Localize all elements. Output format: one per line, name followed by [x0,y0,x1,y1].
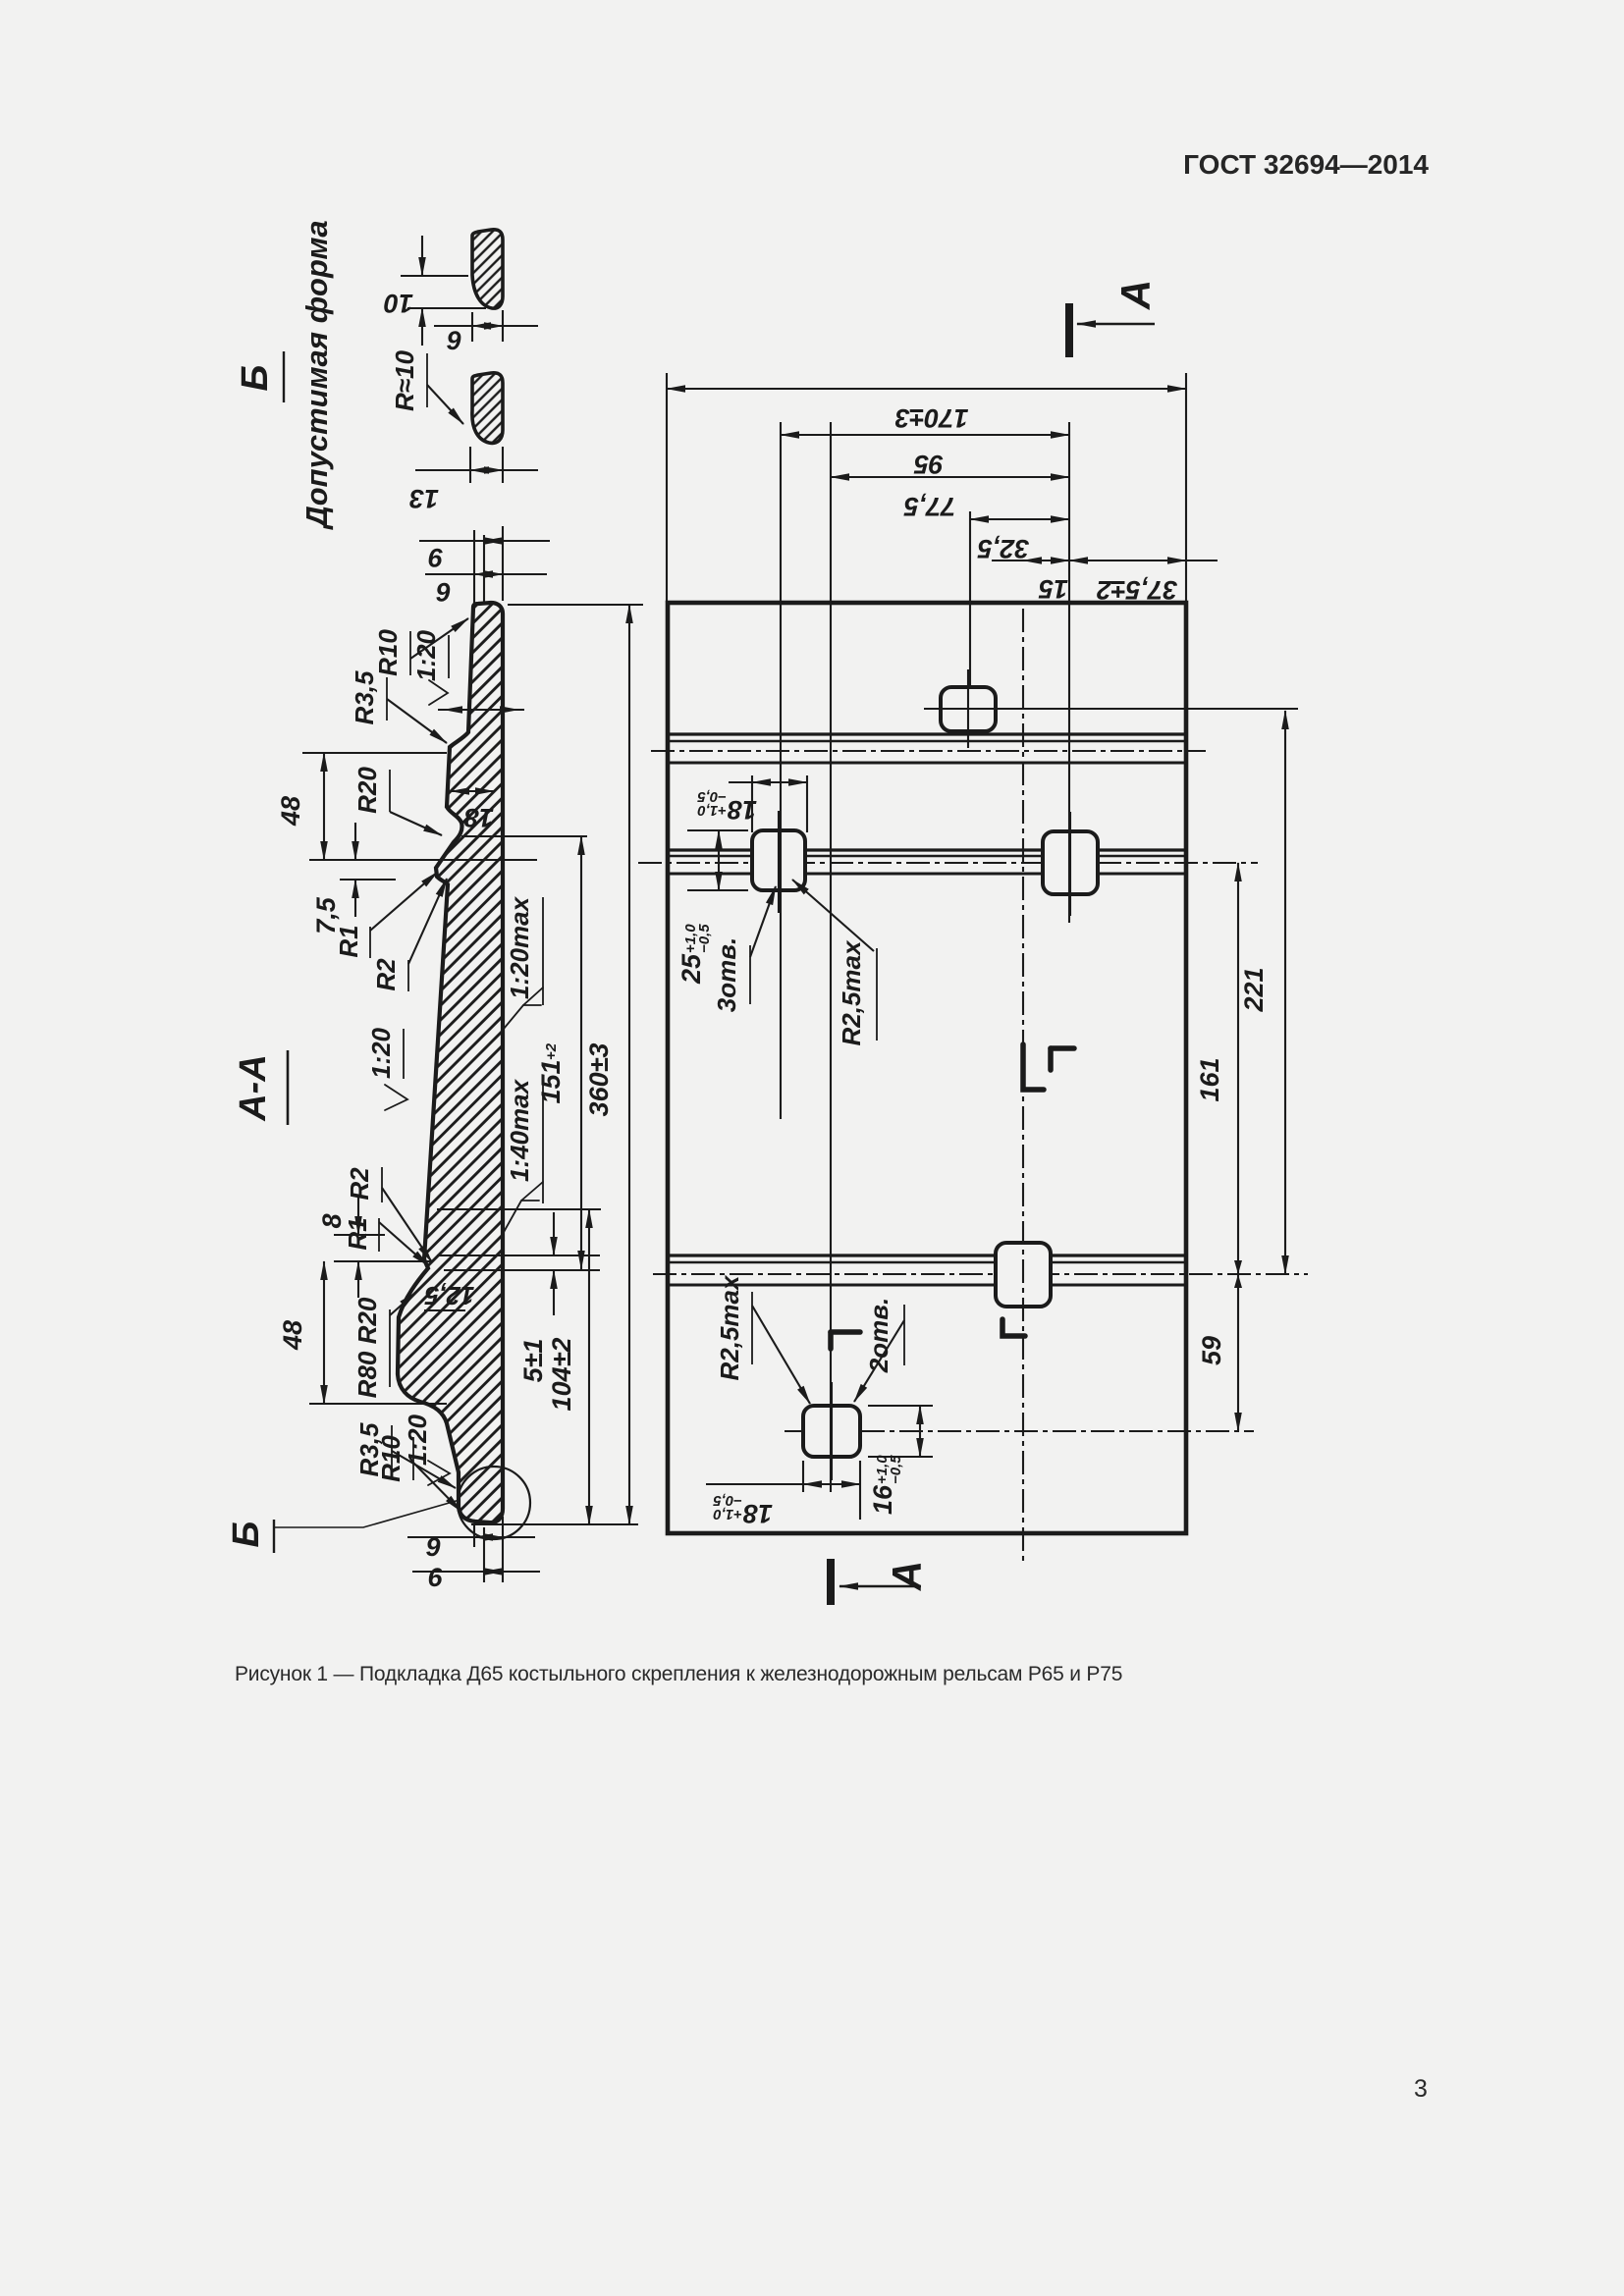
hole H1 top [941,687,996,731]
dimension 25 H2 [718,830,720,890]
rib band B line [668,848,752,851]
extension line x1089 [1068,422,1070,923]
reference line 12,5 [424,1309,465,1311]
extension H2 left [751,775,753,832]
dimension 18 H5 [803,1483,860,1485]
svg-text:Рисунок 1 — Подкладка Д65 кост: Рисунок 1 — Подкладка Д65 костыльного ск… [235,1663,1122,1685]
extension bottom 9 [473,1523,475,1547]
svg-text:9: 9 [425,1532,440,1562]
hole H3 middle right [1043,831,1098,894]
svg-text:6: 6 [436,577,452,607]
hole H3 vertical center line [1069,812,1071,916]
svg-text:9: 9 [428,543,443,572]
svg-text:37,5±2: 37,5±2 [1097,575,1177,605]
dimension 15 tail [992,560,1023,561]
svg-text:−0,5: −0,5 [713,1492,742,1509]
corner mark near hole H5 [831,1329,860,1335]
dimension 9 bottom [407,1536,535,1538]
svg-text:3: 3 [1414,2075,1428,2103]
hole H5 bottom [803,1406,860,1457]
extension right edge [1185,373,1187,603]
svg-text:170±3: 170±3 [895,403,969,433]
dimension text 16 +1,0 -0,5 H5 [868,1455,904,1515]
extension blob2 left [469,447,471,483]
rib band A line 1 [668,732,1186,735]
dimension text 25 +1,0 -0,5 H2 [677,924,713,985]
svg-text:Допустимая форма: Допустимая форма [299,220,334,530]
dimension 9 blob1 [434,325,538,327]
dimension 32,5 [970,518,1069,520]
rib band C line [668,1254,996,1256]
svg-text:R≈10: R≈10 [390,349,419,411]
svg-text:−0,5: −0,5 [888,1455,904,1484]
slope flag bottom [428,1461,450,1485]
center line x1042 [1022,609,1024,1561]
svg-text:18: 18 [728,795,757,825]
extension line x988 [969,511,971,687]
svg-text:16: 16 [868,1484,897,1515]
extension blob1 right [502,310,504,342]
hole H1 horizontal center line [924,708,1298,710]
extension H2 top [687,829,748,831]
detail blob 2 outline [472,373,503,444]
reference line y1232 [437,1208,601,1210]
svg-text:R20: R20 [352,767,382,814]
svg-text:360±3: 360±3 [584,1043,614,1117]
corner mark near hole H4 [1002,1319,1025,1336]
reference line y1430 [309,1403,447,1405]
svg-text:77,5: 77,5 [903,492,956,521]
detail blob 1 outline [472,230,503,308]
dimension 170±3 [667,388,1186,390]
svg-text:А: А [1112,280,1159,310]
svg-text:А: А [884,1561,930,1591]
extension line x846 [830,422,832,1492]
dimension 10 arrows [421,236,423,276]
svg-text:−0,5: −0,5 [697,788,727,805]
detail circle Б [458,1467,530,1539]
extension line top right edge [502,526,504,601]
svg-text:18: 18 [743,1499,773,1528]
rib band A line 3 [668,762,1186,765]
dimension 18 shoulder [451,790,494,792]
svg-text:13: 13 [409,484,439,513]
svg-text:1:20max: 1:20max [505,895,534,999]
svg-text:R10: R10 [373,629,403,676]
svg-text:48: 48 [276,796,305,827]
dimension 16 H5 [919,1406,921,1457]
dimension 15 [1023,560,1069,561]
reference line y1258 [334,1234,385,1236]
hole H5 vertical center line [831,1382,833,1480]
hole H2 vertical center line [778,811,780,913]
dimension 48 lower line [323,1261,325,1404]
svg-text:25: 25 [677,953,706,985]
dimension 48 upper line [323,753,325,860]
hole row D center line [785,1430,1254,1432]
reference line y767 [302,752,447,754]
svg-text:151: 151 [536,1059,566,1103]
extension blob1 left [471,312,473,342]
svg-text:9: 9 [446,326,460,355]
dimension 151+2 line [580,836,582,1269]
dimension 8 arrows [357,1198,359,1235]
svg-text:18: 18 [464,803,494,832]
extension blob2 right [502,447,504,483]
dimension 360±3 line [628,605,630,1524]
extension H5 bottom [868,1456,933,1458]
reference line bottom [471,1523,638,1525]
svg-text:1:20: 1:20 [411,629,441,681]
svg-text:48: 48 [278,1320,307,1351]
leader R10 top [410,618,468,659]
section cut mark A top [1065,303,1073,357]
dimension text 18 +1,0 -0,5 H5 [713,1492,773,1528]
svg-text:95: 95 [913,450,944,479]
reference line blob1 bottom [407,307,486,309]
section cut mark A bottom [827,1559,835,1605]
extension line x795 [780,422,782,1119]
dimension 18 H2 tail [729,781,752,783]
hole H2 middle left [752,830,805,890]
svg-text:161: 161 [1195,1057,1224,1101]
dimension 7,5 lower arrow [354,880,356,917]
hole H4 lower [996,1243,1051,1307]
svg-text:R2,5max: R2,5max [715,1274,744,1380]
svg-text:R2,5max: R2,5max [837,939,866,1045]
extension line top tip 9 [473,530,475,605]
reference line blob1 top [401,275,468,277]
reference line y1294 [444,1269,600,1271]
dimension 7,5 upper arrow [354,823,356,860]
svg-text:R1: R1 [334,925,363,957]
dimension 161/59 line [1237,863,1239,1431]
rib band A line 2 [668,740,1186,743]
dimension text 18 +1,0 -0,5 H2 [697,788,757,825]
svg-text:221: 221 [1239,967,1269,1012]
extension H5 right [859,1461,861,1520]
svg-text:R80 R20: R80 R20 [352,1297,382,1398]
svg-text:ГОСТ 32694—2014: ГОСТ 32694—2014 [1183,149,1429,180]
rib band C center line [653,1273,1308,1275]
svg-text:−0,5: −0,5 [696,924,713,953]
svg-text:R3,5: R3,5 [350,670,379,724]
rib band C line [668,1261,996,1264]
reference line y1279 [437,1255,600,1256]
extension H2 bottom [687,889,748,891]
section A-A hatched body outline [398,603,503,1522]
rib band C line [668,1284,996,1287]
reference line y1285 [334,1260,432,1262]
leader R3,5 top [387,699,447,743]
reference line across section y722 [438,709,524,711]
slope flag 1:20 top [429,680,448,705]
svg-text:104±2: 104±2 [547,1338,576,1412]
svg-text:А-А: А-А [233,1054,274,1122]
dimension 18 H5 tail [706,1483,803,1485]
rib band B center line [638,862,1258,864]
svg-text:6: 6 [427,1563,443,1592]
plan view plate outline [668,603,1186,1533]
hole H1 vertical center line [967,669,969,748]
svg-text:5±1: 5±1 [518,1339,548,1383]
svg-text:10: 10 [384,289,413,318]
dimension 13 blob2 [415,469,538,471]
svg-text:R2: R2 [345,1167,374,1201]
svg-text:Б: Б [235,365,276,392]
dimension 9 line (top) [425,573,547,575]
slope flag 1:20 seat [385,1085,407,1110]
extension bottom right [502,1517,504,1582]
rib band A center line [651,750,1206,752]
leader Б [274,1500,460,1527]
svg-text:1:20: 1:20 [403,1414,432,1466]
dimension 6 line (top) [419,540,550,542]
rib band B line [668,873,752,876]
extension left edge [666,373,668,603]
dimension 37,5±2 [1069,560,1186,561]
svg-text:12,5: 12,5 [424,1281,474,1310]
extension H5 top [868,1405,933,1407]
svg-text:+2: +2 [543,1042,560,1060]
corner mark pair near hole H3 [1023,1044,1044,1090]
dimension 77,5 [831,476,1069,478]
extension H5 left [802,1461,804,1492]
extension line top tip 6 [483,535,485,603]
rib band B line [668,855,752,858]
reference line y852 [461,835,587,837]
svg-text:Б: Б [226,1522,267,1548]
svg-text:59: 59 [1197,1336,1226,1365]
extension H2 right [806,775,808,832]
reference line y896 [340,879,396,881]
svg-text:32,5: 32,5 [977,534,1030,563]
double arrow at rib C center [1234,1260,1242,1288]
svg-text:1:20: 1:20 [366,1027,396,1079]
svg-text:1:40max: 1:40max [505,1078,534,1182]
dimension 95 [781,434,1069,436]
dimension 104±2 line [588,1209,590,1524]
reference line top right [508,604,643,606]
svg-text:R1: R1 [343,1217,372,1250]
dimension 18 H2 [752,781,807,783]
dimension 6 bottom [412,1571,540,1573]
svg-text:R2: R2 [371,958,401,991]
svg-text:3отв.: 3отв. [712,937,741,1012]
dimension 221 line [1284,711,1286,1274]
svg-text:R10: R10 [376,1435,406,1482]
reference line y876 [309,859,537,861]
dimension text 151+2 [536,1042,566,1103]
dimension 5±1 arrows [553,1212,555,1255]
extension bottom 6 [483,1527,485,1582]
svg-text:15: 15 [1038,574,1068,604]
